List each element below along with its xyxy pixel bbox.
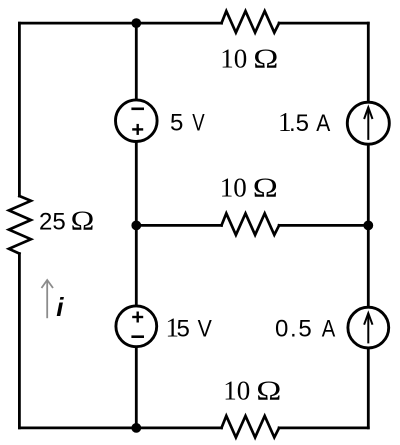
node dot middle-left xyxy=(131,221,141,231)
wire middle horizontal right xyxy=(279,224,368,227)
wire bottom-right horizontal xyxy=(279,426,368,429)
svg-text:A: A xyxy=(316,110,330,137)
svg-text:5: 5 xyxy=(170,110,183,137)
wire middle horizontal left xyxy=(136,224,221,227)
svg-text:0.5: 0.5 xyxy=(275,315,313,342)
svg-text:10: 10 xyxy=(223,375,250,405)
wire right vertical xyxy=(367,23,370,428)
svg-text:Ω: Ω xyxy=(253,44,278,74)
svg-text:5: 5 xyxy=(177,315,190,342)
svg-text:i: i xyxy=(56,292,64,322)
svg-text:Ω: Ω xyxy=(256,375,281,405)
svg-text:.5: .5 xyxy=(289,110,309,137)
node dot top xyxy=(131,18,141,28)
svg-text:V: V xyxy=(192,110,204,137)
V1 plus sign xyxy=(132,124,143,135)
svg-text:25: 25 xyxy=(39,209,66,236)
resistor R top 10ohm zigzag xyxy=(222,11,280,32)
current source I1 1.5A circle xyxy=(347,102,389,144)
node dot bottom xyxy=(131,423,141,433)
voltage source V1 5V circle xyxy=(116,100,158,142)
current direction arrow i (gray) xyxy=(42,280,54,318)
svg-text:V: V xyxy=(198,315,212,342)
I2 arrow up xyxy=(364,313,372,343)
current source I2 0.5A circle xyxy=(348,307,389,348)
voltage source V2 15V circle xyxy=(116,306,157,347)
I1 arrow up xyxy=(364,107,372,140)
svg-text:Ω: Ω xyxy=(253,172,278,202)
V2 minus sign xyxy=(131,335,144,338)
wire top-right horizontal xyxy=(279,22,368,25)
resistor R middle 10ohm zigzag xyxy=(222,213,280,235)
wire left vertical upper xyxy=(18,23,21,196)
wire left vertical lower xyxy=(18,254,21,428)
wire top-left horizontal xyxy=(19,22,221,25)
resistor R left 25ohm zigzag xyxy=(9,196,31,254)
V2 plus sign xyxy=(132,312,143,323)
V1 minus sign xyxy=(131,108,144,111)
wire bottom-left horizontal xyxy=(19,426,221,429)
svg-text:Ω: Ω xyxy=(71,207,95,236)
node dot middle-right xyxy=(363,221,373,231)
wire middle branch vertical xyxy=(135,23,138,428)
svg-text:10: 10 xyxy=(220,44,247,74)
resistor R bottom 10ohm zigzag xyxy=(222,416,280,438)
svg-text:A: A xyxy=(322,315,336,342)
svg-text:10: 10 xyxy=(220,172,247,202)
